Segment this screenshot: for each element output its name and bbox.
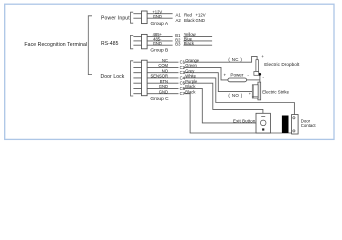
connector Group B bbox=[142, 34, 148, 48]
exit button icon bbox=[256, 113, 270, 133]
svg-text:NO: NO bbox=[162, 68, 169, 73]
svg-text:( NC ): ( NC ) bbox=[228, 57, 242, 62]
wire GND (C7) bbox=[147, 93, 178, 95]
svg-text:RS-485: RS-485 bbox=[101, 41, 119, 47]
wire C2 Green to power bbox=[184, 67, 228, 79]
wire C6 Black to exit button left bbox=[184, 88, 257, 122]
electric strike icon bbox=[258, 82, 261, 100]
door contact icon: switch plate bbox=[292, 115, 299, 135]
svg-text:Black: Black bbox=[184, 41, 195, 46]
svg-text:Electric Strike: Electric Strike bbox=[262, 89, 289, 94]
svg-text:GND: GND bbox=[153, 14, 162, 19]
svg-text:( NO ): ( NO ) bbox=[228, 93, 242, 98]
svg-text:SENSOR: SENSOR bbox=[151, 74, 169, 79]
svg-text:COM: COM bbox=[158, 63, 168, 68]
wire NC bbox=[147, 61, 178, 63]
wire stub A1 left bbox=[133, 13, 141, 15]
svg-text:Electric Dropbolt: Electric Dropbolt bbox=[264, 62, 300, 67]
wire BTN bbox=[147, 82, 178, 84]
svg-text:Grey: Grey bbox=[185, 68, 195, 73]
wire GND (B) bbox=[147, 44, 173, 46]
wire NO bbox=[147, 72, 178, 74]
svg-text:GND: GND bbox=[159, 84, 168, 89]
wire GND (C6) bbox=[147, 87, 178, 89]
wire stub B3 left bbox=[133, 44, 141, 46]
wire C7 Black bottom bus to door contact bbox=[184, 94, 292, 133]
wire stub B1 left bbox=[133, 36, 141, 38]
wire C5 Purple to exit button bbox=[184, 83, 263, 113]
svg-text:NC: NC bbox=[162, 58, 168, 63]
svg-text:Group C: Group C bbox=[150, 96, 169, 102]
svg-text:Door Lock: Door Lock bbox=[101, 74, 125, 80]
svg-text:Purple: Purple bbox=[185, 79, 198, 84]
wire C3 Grey to strike bbox=[184, 73, 254, 92]
bracket group C bbox=[131, 61, 134, 96]
svg-text:White: White bbox=[185, 74, 196, 79]
door contact icon: magnet bar bbox=[282, 116, 289, 134]
svg-text:Group A: Group A bbox=[150, 21, 168, 27]
svg-text:Contact: Contact bbox=[301, 123, 317, 128]
wire C1 Orange to dropbolt bbox=[184, 56, 258, 62]
svg-text:GND: GND bbox=[196, 18, 205, 23]
svg-text:GND: GND bbox=[159, 89, 168, 94]
svg-text:Group B: Group B bbox=[150, 48, 168, 54]
wire power minus to bus bbox=[247, 79, 260, 81]
connector Group A bbox=[142, 11, 148, 24]
terminal screw top bbox=[293, 117, 295, 119]
electric dropbolt icon bbox=[256, 60, 259, 72]
svg-text:A2: A2 bbox=[176, 18, 182, 23]
wire GND (A) bbox=[147, 17, 173, 19]
bus wire dropbolt/strike minus bbox=[259, 74, 261, 83]
wire SENSOR bbox=[147, 77, 178, 79]
bracket group A bbox=[131, 12, 134, 23]
svg-text:+: + bbox=[224, 73, 227, 78]
big bracket (terminal) bbox=[88, 16, 92, 75]
svg-text:BTN: BTN bbox=[160, 79, 168, 84]
svg-text:Power Input: Power Input bbox=[101, 16, 130, 22]
connector Group C bbox=[142, 60, 148, 95]
svg-text:Black: Black bbox=[185, 84, 196, 89]
svg-text:Orange: Orange bbox=[185, 58, 200, 63]
wire stubs C left bbox=[133, 62, 141, 93]
svg-text:Power: Power bbox=[230, 73, 243, 78]
wire COM bbox=[147, 66, 178, 68]
svg-text:Green: Green bbox=[185, 63, 197, 68]
wire B1 Yellow bbox=[184, 36, 213, 38]
wire stub B2 left bbox=[133, 40, 141, 42]
junction dot bbox=[258, 73, 261, 76]
svg-text:Face Recognition Terminal: Face Recognition Terminal bbox=[24, 42, 87, 48]
power supply bbox=[228, 78, 247, 82]
svg-text:Black: Black bbox=[185, 89, 196, 94]
wire C4 White to door contact bbox=[184, 78, 295, 115]
wire 485- bbox=[147, 40, 173, 42]
svg-text:Black: Black bbox=[184, 18, 195, 23]
svg-text:GND: GND bbox=[153, 41, 162, 46]
wire 485+ bbox=[147, 36, 173, 38]
wire stub A2 left bbox=[133, 17, 141, 19]
svg-text:B3: B3 bbox=[175, 42, 181, 47]
wire B3 Black bbox=[184, 44, 213, 46]
wire B2 Blue bbox=[184, 40, 213, 42]
terminal screw bottom bbox=[293, 130, 295, 132]
bracket group B bbox=[131, 35, 134, 48]
wire +12V bbox=[147, 13, 173, 15]
svg-text:Exit Button: Exit Button bbox=[233, 119, 256, 124]
outer frame bbox=[5, 4, 334, 139]
